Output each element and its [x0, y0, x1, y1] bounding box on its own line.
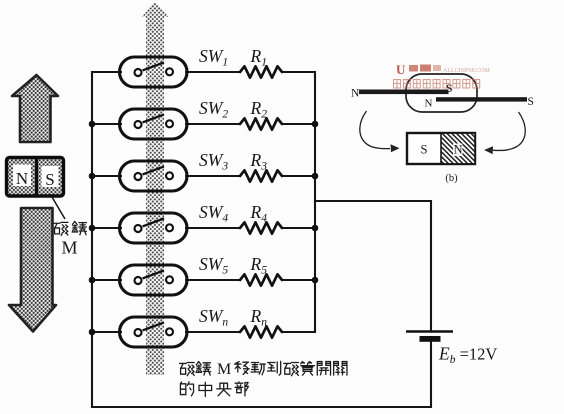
svg-text:Eb =12V: Eb =12V	[438, 344, 497, 367]
svg-text:S: S	[421, 143, 428, 157]
svg-text:M: M	[62, 238, 78, 258]
svg-text:N: N	[453, 143, 462, 157]
svg-text:M: M	[217, 361, 231, 378]
svg-text:U: U	[396, 62, 406, 77]
svg-text:N: N	[351, 88, 360, 100]
svg-text:N: N	[16, 169, 28, 188]
svg-text:ALLCHIPS8.COM: ALLCHIPS8.COM	[443, 68, 491, 74]
svg-text:(b): (b)	[445, 173, 458, 184]
svg-text:S: S	[528, 96, 534, 108]
svg-text:N: N	[425, 98, 433, 110]
svg-text:S: S	[45, 170, 54, 189]
